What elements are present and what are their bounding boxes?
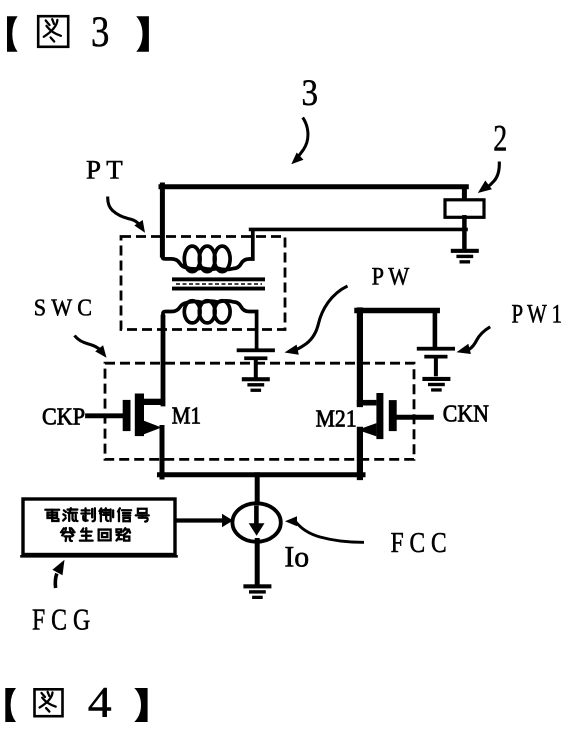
arrow pointer for FCC [285,516,364,542]
transistor M1 [88,394,165,437]
battery PW (power supply) [237,348,275,378]
transistor M21 [357,393,432,439]
arrow pointer for label 2 [478,162,500,194]
wire: antenna loop top [161,184,466,189]
transformer primary winding [162,230,252,272]
svg-text:F C C: F C C [391,528,447,559]
transformer secondary winding [163,301,257,349]
svg-text:CKN: CKN [443,401,489,427]
svg-text:P W: P W [372,264,410,291]
svg-text:Io: Io [284,540,309,573]
kanji text line 1: 電流制御信号 [45,508,148,521]
dashed box PT (transformer) [121,237,285,330]
wire: bottom rail [160,472,364,477]
wire: top wire from M21 drain to PW1 [357,308,437,314]
header figure-4 caption 【図4】 [5,680,147,727]
header figure-3 caption 【図3】 [7,9,149,56]
ground (PW1) [422,377,450,392]
ground (current source) [243,584,271,599]
arrow pointer for PW1 [457,327,491,354]
wire: lower return wire of loop to transformer primary [251,228,466,232]
svg-text:P W 1: P W 1 [512,300,563,329]
arrow pointer for PW [285,286,348,355]
arrow FCG output to current source [176,514,233,527]
wire: left vertical (transformer secondary to M1 drain) [161,317,166,404]
wire: M21 source down to rail [357,430,363,477]
wire: M1 source down to rail [160,428,165,478]
ground (PW) [242,377,270,392]
arrow pointer for SWC [75,336,107,358]
arrow pointer for FCG [52,560,64,588]
dashed box SWC (switch circuit) [105,363,414,459]
svg-text:3: 3 [91,9,109,56]
wire: element 2 bottom to ground [462,217,467,250]
svg-text:CKP: CKP [42,405,85,431]
ground (element 2) [451,249,479,264]
element 2 (terminator block) [445,200,484,218]
kanji text line 2: 発生回路 [61,528,130,541]
wire: current source to ground [255,541,260,586]
svg-text:P T: P T [86,156,123,185]
wire: M21 drain vertical [357,311,363,405]
svg-text:2: 2 [493,119,507,160]
svg-text:3: 3 [302,73,319,114]
wire: antenna loop left vertical [160,185,165,255]
wire: rail to current source [255,475,260,504]
svg-text:M21: M21 [316,406,357,432]
battery PW1 (power supply) [417,347,455,377]
current source FCC circle [232,503,280,541]
transformer core lines [172,277,265,290]
arrow pointer for PT [108,197,145,233]
svg-text:S W C: S W C [34,295,92,321]
wire: antenna loop right stub down to element 2 [462,187,467,200]
svg-text:F C G: F C G [32,601,90,636]
arrow pointer for label 3 [291,118,308,165]
svg-text:M1: M1 [172,403,201,429]
svg-text:4: 4 [88,680,112,727]
box FCG (current control signal generator) [22,499,177,556]
wire: right vertical down to PW1 [433,311,438,348]
